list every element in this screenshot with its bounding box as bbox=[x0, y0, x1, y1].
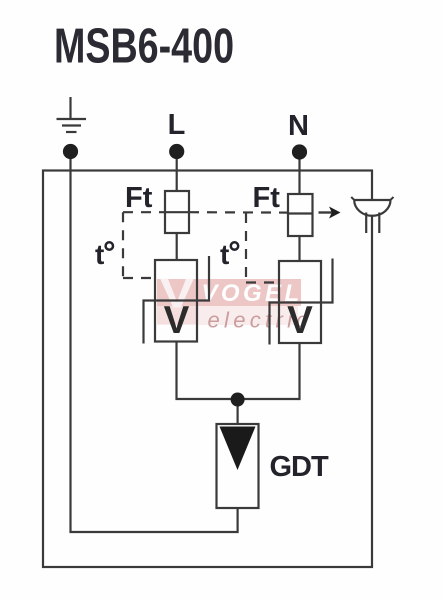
svg-text:MSB6-400: MSB6-400 bbox=[54, 19, 234, 74]
svg-text:t: t bbox=[220, 239, 229, 270]
svg-text:V: V bbox=[164, 299, 190, 342]
svg-text:t: t bbox=[95, 239, 104, 270]
svg-text:L: L bbox=[168, 109, 186, 141]
svg-text:N: N bbox=[288, 110, 309, 142]
svg-text:Ft: Ft bbox=[125, 182, 153, 214]
svg-text:V: V bbox=[287, 299, 313, 342]
svg-text:Ft: Ft bbox=[253, 182, 281, 214]
svg-text:GDT: GDT bbox=[270, 451, 330, 483]
